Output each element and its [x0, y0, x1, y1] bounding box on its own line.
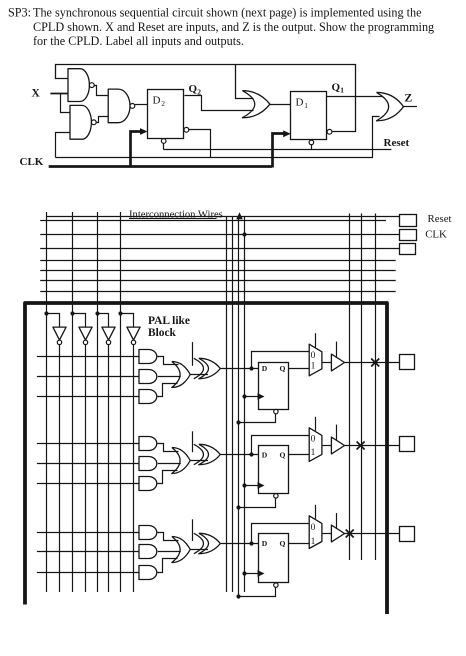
svg-text:CLK: CLK — [425, 229, 447, 241]
svg-text:Q: Q — [332, 81, 341, 93]
svg-text:CPLD shown. X and Reset are in: CPLD shown. X and Reset are inputs, and … — [33, 20, 434, 34]
svg-text:1: 1 — [304, 101, 308, 110]
svg-text:CLK: CLK — [20, 156, 44, 168]
svg-text:0: 0 — [311, 351, 316, 361]
svg-text:Block: Block — [148, 327, 177, 339]
svg-text:1: 1 — [311, 362, 316, 372]
svg-text:1: 1 — [340, 86, 344, 95]
svg-text:Q: Q — [280, 450, 286, 459]
svg-text:X: X — [32, 87, 41, 99]
svg-text:The synchronous sequential cir: The synchronous sequential circuit shown… — [33, 6, 422, 20]
svg-text:2: 2 — [161, 99, 165, 108]
svg-text:0: 0 — [311, 435, 316, 445]
svg-text:PAL like: PAL like — [148, 315, 190, 327]
svg-text:Q: Q — [189, 83, 198, 95]
svg-text:D: D — [153, 95, 161, 107]
svg-text:D: D — [296, 96, 304, 108]
svg-text:0: 0 — [311, 523, 316, 533]
svg-text:1: 1 — [311, 537, 316, 547]
svg-text:SP3:: SP3: — [8, 6, 31, 20]
svg-text:D: D — [262, 364, 268, 373]
svg-text:Reset: Reset — [428, 213, 452, 225]
svg-text:1: 1 — [311, 448, 316, 458]
svg-text:Reset: Reset — [384, 137, 410, 149]
svg-text:for the CPLD. Label all inputs: for the CPLD. Label all inputs and outpu… — [33, 34, 244, 48]
svg-text:D: D — [262, 539, 268, 548]
svg-text:Z: Z — [405, 93, 413, 105]
svg-text:D: D — [262, 450, 268, 459]
svg-text:Q: Q — [280, 364, 286, 373]
svg-text:Q: Q — [280, 539, 286, 548]
